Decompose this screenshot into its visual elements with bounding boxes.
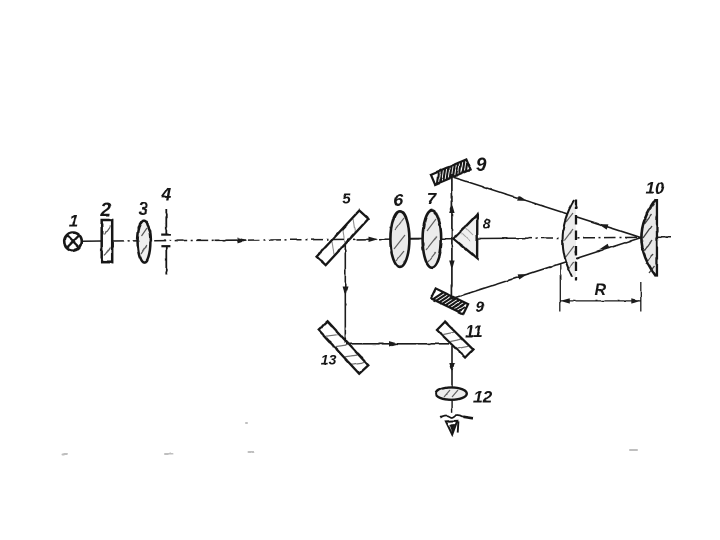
axis arrow 2	[357, 237, 378, 242]
mirror 13	[318, 321, 368, 374]
dimension line R	[560, 298, 641, 303]
svg-text:R: R	[595, 282, 607, 299]
vertical beam line through prism	[451, 175, 453, 300]
ray bottom to mirror 10	[452, 238, 641, 299]
arrow down on vertical beam	[449, 261, 454, 271]
optical axis solid through lenses and prism	[379, 238, 520, 239]
svg-text:6: 6	[394, 191, 404, 210]
arrow on bottom ray forward	[518, 274, 528, 280]
lens 6	[390, 211, 409, 267]
optical axis right end	[641, 236, 671, 238]
mirror 11	[437, 322, 473, 358]
svg-text:10: 10	[646, 178, 665, 197]
lens 3	[138, 221, 151, 263]
svg-text:4: 4	[160, 184, 171, 204]
beamsplitter 5	[317, 210, 369, 265]
svg-text:9: 9	[476, 155, 487, 176]
mirror 10	[641, 199, 656, 277]
lens 12	[436, 387, 467, 399]
wire mirror 13 to mirror 11	[346, 343, 449, 345]
optical axis dash-dot to mirror 10	[520, 236, 640, 239]
wire lens 12 to eye	[451, 400, 453, 413]
eye symbol	[440, 415, 473, 435]
field lens with dashed plane	[563, 200, 576, 281]
svg-text:9: 9	[476, 299, 485, 316]
wire beamsplitter down	[344, 244, 346, 343]
arrow on top ray forward	[517, 195, 527, 201]
wire mirror 11 down	[451, 346, 453, 387]
svg-text:2: 2	[99, 200, 111, 221]
svg-text:12: 12	[473, 387, 492, 406]
dimension extension line right	[640, 282, 642, 312]
optical axis dash-dot segment mid	[248, 238, 356, 241]
mirror 9 top	[431, 159, 471, 184]
svg-text:11: 11	[465, 322, 483, 341]
svg-text:1: 1	[69, 212, 78, 231]
mirror 9 bottom	[431, 288, 468, 314]
axis arrow 1	[215, 238, 248, 243]
svg-text:3: 3	[138, 199, 148, 219]
arrow on bottom ray return	[600, 244, 610, 250]
faint scan specks bottom	[61, 422, 638, 455]
prism 8	[454, 215, 478, 259]
arrow on horizontal wire	[389, 341, 399, 346]
svg-text:13: 13	[321, 352, 337, 368]
arrow on top ray return	[599, 224, 609, 230]
dimension extension line left	[559, 263, 561, 312]
svg-text:8: 8	[483, 216, 491, 232]
lamp 1	[64, 233, 82, 251]
arrow up on vertical beam	[449, 204, 454, 214]
filter 2	[102, 220, 113, 262]
optical axis dash-dot segment left	[83, 239, 215, 242]
lens 7	[423, 210, 442, 267]
arrow down on beamsplitter branch	[343, 287, 348, 297]
svg-text:5: 5	[342, 191, 351, 208]
aperture 4	[161, 209, 171, 275]
svg-text:7: 7	[427, 190, 438, 209]
ray top to mirror 10	[452, 177, 641, 238]
arrow down to lens 12	[449, 363, 454, 373]
